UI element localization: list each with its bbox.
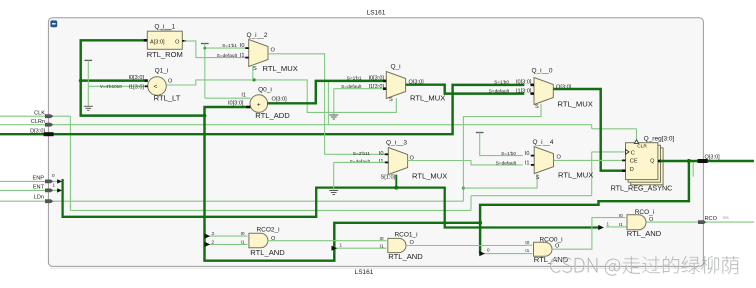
svg-text:O: O — [271, 48, 276, 54]
svg-text:RTL_LT: RTL_LT — [154, 93, 181, 102]
svg-text:ENP: ENP — [32, 176, 44, 182]
svg-text:I1[3:0]: I1[3:0] — [516, 88, 532, 94]
constant 1 supply bar — [201, 43, 209, 45]
svg-text:RTL_MUX: RTL_MUX — [263, 64, 298, 73]
svg-text:CE: CE — [630, 159, 638, 165]
wire mux Q_i I1 to ground — [334, 88, 383, 90]
and-gate RCO1_i RTL_AND — [388, 238, 406, 252]
wire RCO2 out to RCO1 I0 — [267, 240, 386, 242]
bus tap Q0 — [479, 223, 481, 254]
bus tap Q2 — [210, 243, 248, 245]
svg-text:CLK: CLK — [34, 111, 45, 117]
svg-text:RTL_MUX: RTL_MUX — [412, 172, 447, 181]
svg-text:S=1'b1: S=1'b1 — [347, 75, 362, 81]
svg-text:RTL_AND: RTL_AND — [627, 229, 662, 238]
svg-text:RCO1_i: RCO1_i — [394, 231, 417, 238]
svg-text:S=default: S=default — [217, 53, 238, 59]
svg-text:ENT: ENT — [33, 185, 45, 191]
svg-text:Q[3:0]: Q[3:0] — [705, 154, 721, 160]
mux Q_i RTL_MUX — [386, 72, 405, 99]
svg-text:I1: I1 — [240, 53, 245, 59]
svg-text:I0: I0 — [240, 231, 244, 237]
wire CLRn net — [0, 124, 592, 126]
adder Q0_i RTL_ADD — [250, 95, 268, 113]
svg-text:I0: I0 — [379, 151, 384, 157]
svg-text:RCO0_i: RCO0_i — [539, 236, 562, 243]
svg-text:Q1_i: Q1_i — [155, 68, 169, 75]
mux Q_i__0 RTL_MUX — [534, 78, 553, 105]
svg-text:Q_i__2: Q_i__2 — [247, 32, 268, 39]
and-gate RCO0_i RTL_AND — [534, 242, 553, 256]
svg-text:CLRn: CLRn — [31, 119, 45, 125]
svg-text:I0: I0 — [379, 236, 383, 242]
wire LT O to select net — [166, 80, 396, 113]
wire ENP stub — [0, 180, 58, 182]
mux Q_i__2 RTL_MUX — [249, 40, 268, 67]
svg-text:I0: I0 — [619, 213, 623, 219]
wire CLK net — [0, 115, 70, 117]
svg-text:RTL_MUX: RTL_MUX — [558, 171, 593, 180]
wire RCO0 out to RCO I0 — [552, 218, 626, 250]
svg-text:I1: I1 — [240, 240, 244, 246]
wire mux3 out to mux4 I1 — [408, 161, 523, 165]
svg-text:A[3:0]: A[3:0] — [150, 40, 165, 46]
constant supply bar (mux4 I0) — [476, 132, 484, 134]
svg-text:D: D — [630, 167, 634, 173]
and-gate RCO2_i RTL_AND — [249, 233, 268, 248]
svg-text:LDn: LDn — [34, 194, 44, 200]
wire mux3 I1 to ground — [334, 161, 385, 163]
svg-text:S=1'b1: S=1'b1 — [222, 43, 237, 49]
svg-text:+: + — [257, 101, 261, 108]
bus tap Q3 — [210, 235, 248, 237]
svg-text:S: S — [535, 104, 539, 110]
wire mux Q_i__0 select net — [463, 104, 541, 202]
svg-text:RTL_ROM: RTL_ROM — [147, 50, 183, 59]
svg-text:I0[3:0]: I0[3:0] — [128, 75, 144, 81]
wire LDn net — [0, 200, 463, 202]
svg-text:Q_i__3: Q_i__3 — [386, 140, 407, 147]
svg-text:I0[3:0]: I0[3:0] — [228, 100, 244, 106]
svg-text:RTL_AND: RTL_AND — [388, 252, 423, 261]
svg-text:RCO: RCO — [705, 216, 718, 222]
watermark — [550, 256, 739, 276]
merge arrow ENT bit1 — [57, 188, 62, 192]
svg-text:S[1:0]: S[1:0] — [381, 175, 396, 181]
svg-text:1: 1 — [53, 182, 56, 187]
svg-text:I0: I0 — [525, 240, 529, 246]
svg-text:Q: Q — [650, 159, 655, 165]
svg-text:S: S — [253, 66, 257, 72]
ground (LT constant) — [84, 106, 93, 110]
svg-text:2: 2 — [212, 240, 215, 245]
wire Q feedback bus — [205, 107, 689, 261]
wire stub below Q port — [692, 162, 694, 177]
svg-text:0: 0 — [487, 248, 490, 253]
svg-text:RCO_i: RCO_i — [635, 209, 655, 216]
svg-text:I0: I0 — [525, 151, 530, 157]
svg-text:Q_reg[3:0]: Q_reg[3:0] — [644, 136, 675, 143]
ground (mux3 I1) — [329, 191, 338, 195]
wire constant-1 stem — [204, 44, 206, 99]
svg-text:I0[3:0]: I0[3:0] — [516, 80, 532, 86]
wire mux2 S drop — [252, 65, 254, 80]
frame bottom shadow — [50, 267, 702, 269]
svg-text:Q_i__1: Q_i__1 — [154, 23, 175, 30]
svg-text:I1: I1 — [525, 161, 530, 167]
wire mux Q_i out to mux Q_i__0 I1 — [406, 85, 525, 94]
svg-text:O: O — [168, 79, 173, 85]
svg-text:3: 3 — [212, 231, 215, 236]
svg-text:LS161: LS161 — [367, 10, 386, 17]
comparator Q1_i RTL_LT — [148, 77, 167, 96]
svg-text:O: O — [175, 40, 180, 46]
svg-text:I0[3:0]: I0[3:0] — [368, 75, 384, 81]
svg-text:S: S — [536, 175, 540, 181]
svg-text:LS161: LS161 — [355, 269, 374, 276]
wire mux Q_i__3 select tap — [395, 175, 397, 188]
svg-text:O: O — [557, 155, 562, 161]
svg-text:S=2'b11: S=2'b11 — [353, 151, 371, 157]
wire constant to mux4 I0 — [480, 133, 523, 156]
wire constant to LT I1 and ground — [87, 60, 89, 106]
wire ADD out to mux Q_i I0 — [267, 81, 384, 103]
svg-text:I0: I0 — [240, 43, 245, 49]
svg-text:I1: I1 — [241, 93, 246, 99]
mux Q_i__4 RTL_MUX — [534, 147, 553, 174]
svg-text:O[3:0]: O[3:0] — [272, 97, 288, 103]
svg-text:RCO2_i: RCO2_i — [256, 227, 279, 234]
wire ROM O to mux2 I1 — [184, 41, 246, 58]
junction node Q bus — [79, 79, 83, 83]
svg-text:I1: I1 — [525, 248, 529, 254]
and-gate RCO_i RTL_AND — [627, 215, 646, 230]
rom Q_i__1 RTL_ROM — [161, 29, 172, 31]
register Q_reg[3:0] RTL_REG_ASYNC — [631, 148, 663, 185]
svg-text:0: 0 — [52, 173, 55, 178]
svg-text:I1: I1 — [379, 243, 383, 249]
svg-text:S=1'b0: S=1'b0 — [494, 80, 509, 86]
svg-text:Q_i__0: Q_i__0 — [532, 68, 553, 75]
svg-text:ms: ms — [723, 215, 730, 220]
bus tap Q1 — [336, 247, 387, 249]
mux Q_i__3 RTL_MUX — [388, 148, 407, 175]
svg-text:Q0_i: Q0_i — [258, 86, 272, 93]
svg-text:S=1'b0: S=1'b0 — [501, 151, 516, 157]
svg-text:Q_i: Q_i — [390, 64, 400, 71]
svg-text:S=default: S=default — [496, 161, 517, 167]
wire S[1:0] bus from ENP/ENT — [63, 179, 599, 228]
wire Q to output port — [660, 160, 754, 162]
collapse icon — [50, 20, 57, 27]
svg-text:1: 1 — [607, 222, 610, 227]
svg-text:I1: I1 — [619, 222, 623, 228]
svg-text:I1[3:0]: I1[3:0] — [128, 84, 144, 90]
module frame LS161 — [48, 18, 703, 267]
wire ENT stub — [0, 189, 58, 191]
wire RCO1 out to RCO0 I0 — [406, 244, 532, 246]
wire unnamed vertical — [327, 81, 329, 125]
svg-text:RTL_ADD: RTL_ADD — [255, 111, 290, 120]
wire D[3:0] bus — [0, 85, 524, 134]
svg-text:RTL_MUX: RTL_MUX — [558, 100, 593, 109]
output port RCO — [698, 220, 706, 224]
wire select to mux Q_i__4 S — [463, 174, 537, 188]
svg-text:CLR: CLR — [637, 144, 647, 150]
svg-text:V=4'b1010: V=4'b1010 — [100, 84, 122, 89]
svg-text:RTL_REG_ASYNC: RTL_REG_ASYNC — [611, 184, 673, 193]
wire RCO out to port — [646, 221, 754, 223]
constant V=4b1010 supply bar — [85, 59, 93, 61]
output port Q[3:0] — [698, 159, 708, 163]
merge arrow ENP bit0 — [57, 179, 62, 183]
svg-text:S: S — [389, 97, 393, 103]
svg-text:RTL_MUX: RTL_MUX — [410, 94, 445, 103]
wire mux2 out to mux3 I0 — [268, 54, 387, 155]
wire mux4 out to register CE — [554, 159, 625, 161]
svg-text:D[3:0]: D[3:0] — [30, 128, 45, 134]
svg-text:1: 1 — [340, 242, 343, 247]
svg-text:<: < — [154, 84, 158, 91]
wire mux Q_i__0 out to register D — [554, 89, 625, 171]
svg-text:S=default: S=default — [489, 88, 510, 94]
svg-text:C: C — [631, 150, 635, 156]
ground (mux Q_i I1) — [329, 115, 338, 119]
svg-text:Q_i__4: Q_i__4 — [533, 139, 554, 146]
svg-text:RTL_AND: RTL_AND — [250, 248, 285, 257]
